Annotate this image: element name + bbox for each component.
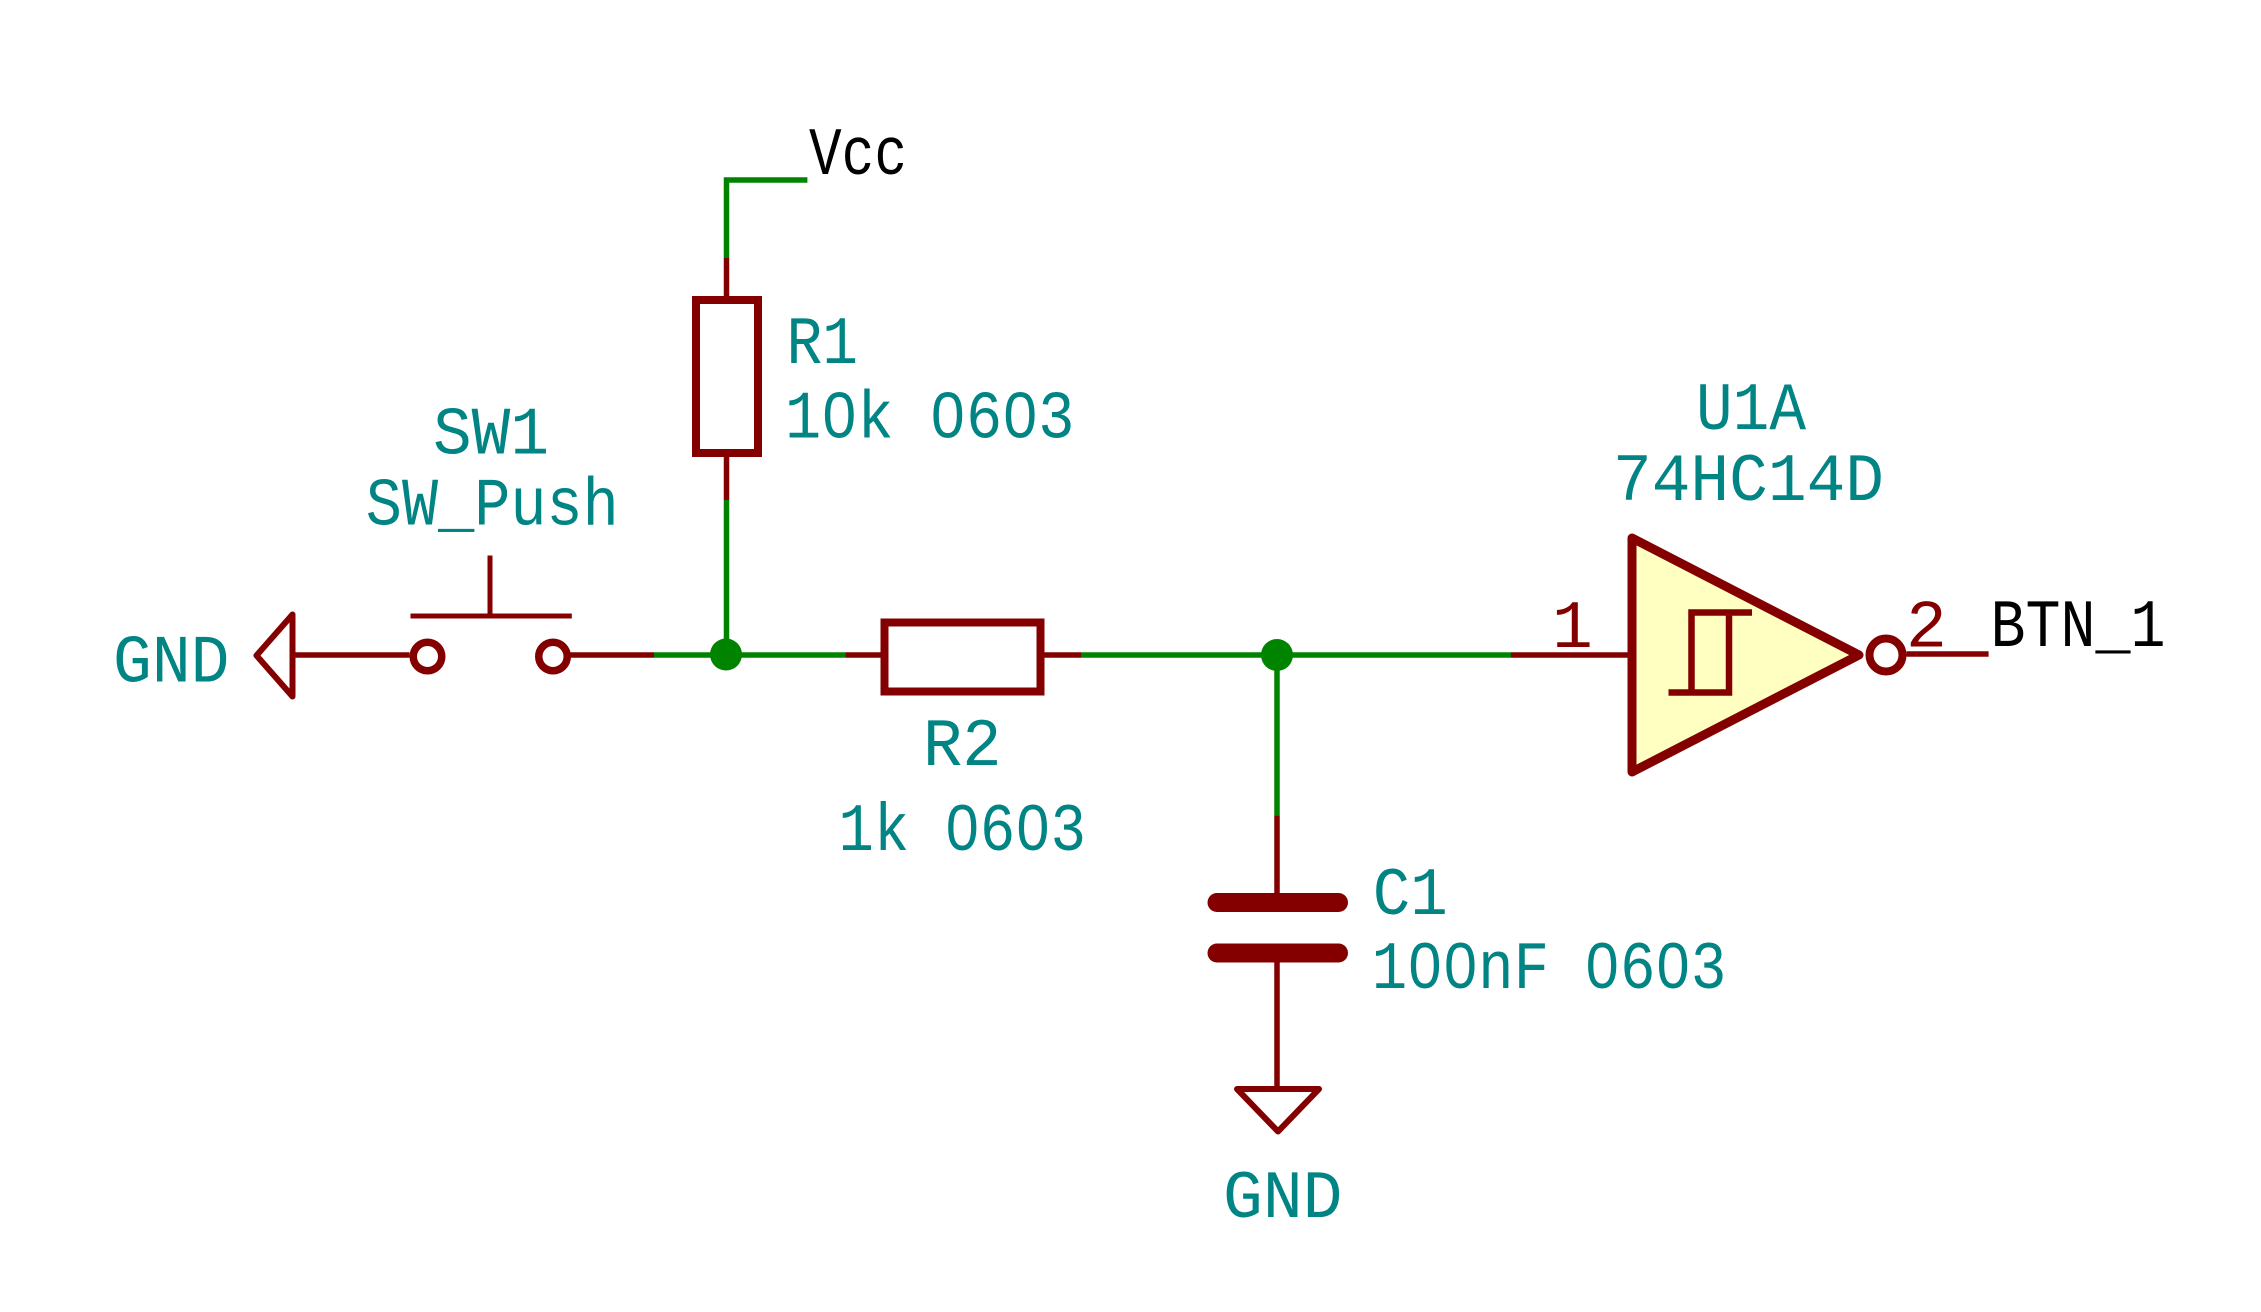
wire GND to SW1 [296,652,410,658]
svg-text:10k 0603: 10k 0603 [785,382,1075,459]
svg-text:1: 1 [1552,591,1593,668]
svg-text:R1: R1 [787,307,859,384]
wire node B to C1 [1274,655,1280,815]
junction node B [1261,639,1293,671]
svg-text:C1: C1 [1373,858,1448,935]
svg-text:SW_Push: SW_Push [366,469,619,546]
ground GND (left) [257,615,293,697]
svg-text:GND: GND [1223,1161,1343,1238]
svg-text:R2: R2 [923,709,1002,786]
wire SW1 to R2 [654,652,846,658]
switch SW1 [411,556,572,671]
svg-text:2: 2 [1906,591,1947,668]
wire R2 to U1A [1081,652,1511,658]
svg-text:U1A: U1A [1696,373,1806,450]
op-amp U1A (Schmitt inverter) [1511,538,1989,772]
wire Vcc corner to R1 [727,180,808,258]
wire R1 to node A [724,500,730,655]
ground GND (bottom) [1237,1089,1319,1132]
wire SW1 pin (dark red) [571,652,655,658]
svg-text:SW1: SW1 [433,398,549,475]
capacitor C1 [1217,815,1339,1086]
svg-text:Vcc: Vcc [809,118,907,195]
resistor R1 [696,258,758,500]
resistor R2 [846,623,1081,692]
svg-text:74HC14D: 74HC14D [1613,444,1884,521]
svg-text:BTN_1: BTN_1 [1991,590,2166,667]
svg-text:GND: GND [113,626,230,703]
junction node A [710,639,742,671]
